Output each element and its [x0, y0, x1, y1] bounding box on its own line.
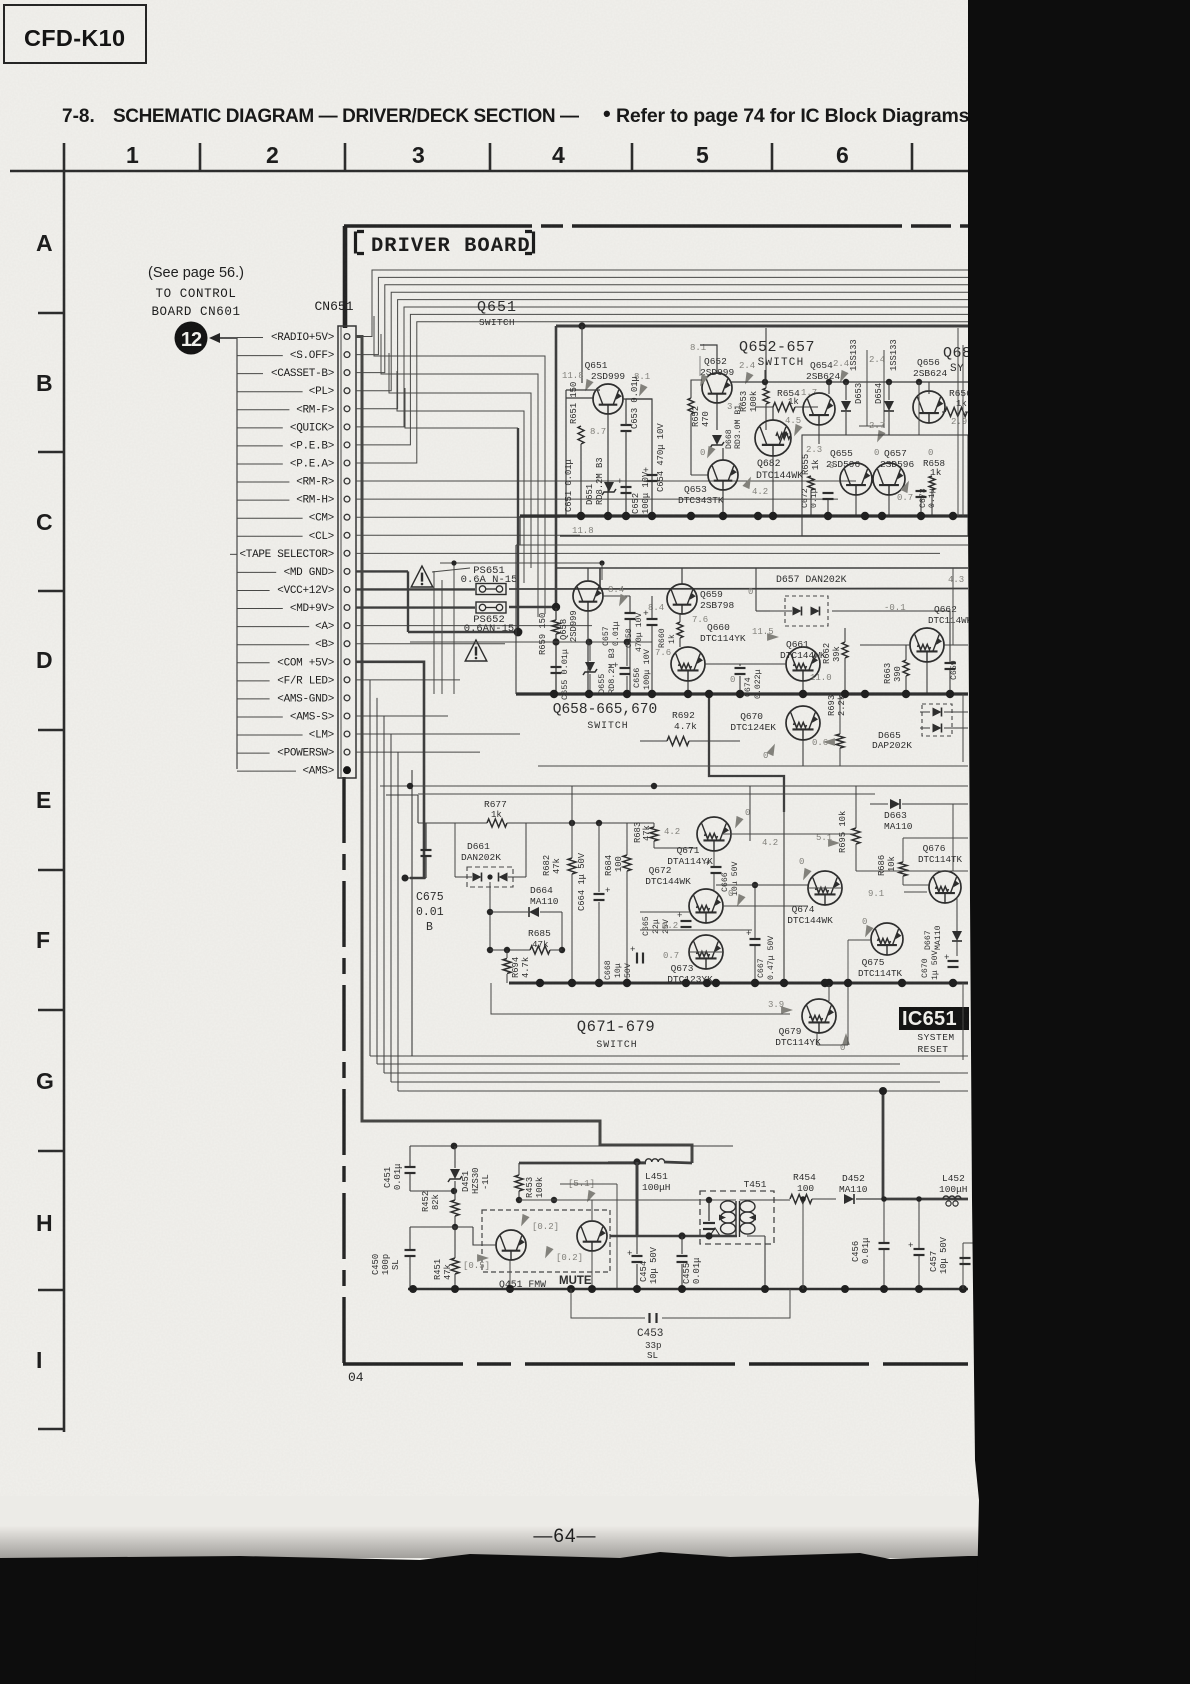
connector CN651 pin MD GND: [344, 569, 350, 575]
bus junction row H: [915, 1285, 923, 1293]
connector CN651 pin P.E.B: [344, 442, 350, 448]
bus junction row H: [841, 1285, 849, 1293]
bus junction row F: [821, 979, 829, 987]
switch box Q655 Q657: [802, 435, 968, 536]
connector CN651 pin B: [344, 641, 350, 647]
fuse PS651: [476, 584, 506, 595]
wire right vertical row H: [962, 1243, 964, 1289]
transistor Q679: [802, 999, 836, 1033]
driver board caption: [356, 232, 365, 254]
connector CN651 pin RADIO+5V: [344, 334, 350, 340]
bus junction row H: [506, 1285, 514, 1293]
capacitor C655 0.01u: [551, 666, 562, 668]
wire MD+9V feed: [356, 606, 475, 608]
connector CN651 pin CL: [344, 532, 350, 538]
ruler left tick 9: [38, 1428, 64, 1431]
rail below bus 2: [516, 544, 968, 546]
wire Q660 to Q661: [705, 663, 786, 665]
transistor Q657: [873, 463, 905, 495]
wire right edge verticals: [957, 328, 959, 516]
bus junction row H: [588, 1285, 596, 1293]
bus junction row D: [623, 690, 631, 698]
bus junction row F: [536, 979, 544, 987]
ruler top tick 2: [344, 143, 347, 171]
ruler top line: [10, 170, 968, 173]
transistor Q676: [929, 871, 961, 903]
ruler left tick 7: [38, 1150, 64, 1153]
bus junction: [861, 512, 869, 520]
bus junction row H: [959, 1285, 967, 1293]
bus junction row F: [595, 979, 603, 987]
wire Q651 base network: [566, 397, 593, 399]
bus junction row D: [736, 690, 744, 698]
connector reference circle 12: [175, 322, 208, 355]
connector CN651 pin P.E.A: [344, 460, 350, 466]
driver board border left lower dash-dot: [342, 777, 345, 1366]
warning triangle lower: [465, 640, 487, 661]
bus junction row F: [703, 979, 711, 987]
bus junction row D: [705, 690, 713, 698]
fuse PS652: [476, 602, 506, 613]
inductor L451 100uH: [645, 1159, 664, 1162]
bus junction row H: [761, 1285, 769, 1293]
connector CN651 pin MD+9V: [344, 605, 350, 611]
bus junction: [824, 512, 832, 520]
bus junction row H: [678, 1285, 686, 1293]
bus junction row D: [550, 690, 558, 698]
connector CN651 pin A: [344, 623, 350, 629]
capacitor C675 0.01 B: [421, 849, 432, 851]
ruler left tick 4: [38, 729, 64, 732]
svg-text:—64—: —64—: [533, 1526, 596, 1547]
switch block outline: [491, 983, 790, 1014]
wire bus drop x709: [709, 694, 784, 812]
wire from PS652 right: [509, 606, 556, 608]
bus junction: [687, 512, 695, 520]
ruler top tick 4: [631, 143, 634, 171]
connector CN651 pin COM +5V: [344, 659, 350, 665]
transistor Q670: [786, 706, 820, 740]
wire lower rail row D: [538, 765, 968, 767]
transistor Q451a: [496, 1230, 526, 1260]
bus junction row D: [902, 690, 910, 698]
rail to Q658 block: [556, 567, 968, 569]
bus junction row F: [682, 979, 690, 987]
connector CN651 pin LM: [344, 731, 350, 737]
bus junction row H: [567, 1285, 575, 1293]
mute block Q451: [482, 1210, 610, 1272]
wire bundle bottom horizontals to right: [370, 1055, 968, 1057]
bus junction: [622, 512, 630, 520]
transistor Q659: [667, 584, 697, 614]
bus junction row D: [684, 690, 692, 698]
driver board border left upper: [343, 226, 348, 328]
capacitor at page edge cut: [960, 1257, 971, 1259]
connector CN651 pin S.OFF: [344, 352, 350, 358]
ruler left tick 6: [38, 1009, 64, 1012]
bus junction row D: [861, 690, 869, 698]
bus row F: [509, 982, 968, 985]
ruler top tick 5: [771, 143, 774, 171]
ruler left tick 5: [38, 869, 64, 872]
ruler left vertical line: [63, 171, 66, 1432]
wire T451 secondary top to R454: [740, 1199, 791, 1201]
IC651 block: [899, 1007, 969, 1030]
connector CN651 pin AMS-GND: [344, 695, 350, 701]
driver board border top: [344, 224, 968, 228]
wire VCC+12V feed: [356, 588, 475, 590]
rail below bus: [560, 535, 968, 537]
wire Q679 collector: [828, 985, 830, 1001]
connector CN651 pin AMS-S: [344, 713, 350, 719]
bus junction row F: [949, 979, 957, 987]
bus junction: [719, 512, 727, 520]
transistor Q652: [702, 373, 732, 403]
transistor Q662: [910, 628, 944, 662]
thick feed wire RADIO+5V rail down to FMW mute section: [356, 337, 692, 1164]
bus junction row F: [780, 979, 788, 987]
bus junction row D: [648, 690, 656, 698]
connector CN651 pin PL: [344, 388, 350, 394]
wire Q652 emitter to Q653: [716, 403, 718, 430]
ruler top tick 1: [199, 143, 202, 171]
bus junction row F: [844, 979, 852, 987]
connector CN651 pin CM: [344, 514, 350, 520]
connector CN651 body: [338, 326, 356, 778]
transistor Q673: [689, 935, 723, 969]
thick vertical rail from top to MD+9V net: [555, 326, 558, 608]
top rail of switch blocks: [556, 325, 968, 328]
bus row D: [516, 692, 968, 695]
bus junction row F: [623, 979, 631, 987]
wire top rail Q654 Q656: [730, 381, 968, 383]
wire Q658: [587, 611, 589, 694]
inductor L452 100uH: [943, 1196, 961, 1199]
transistor Q656: [913, 391, 945, 423]
bus row H: [408, 1288, 968, 1291]
bus junction row F: [751, 979, 759, 987]
bus junction row D: [946, 690, 954, 698]
wire vertical drop bundle left of board: [369, 680, 371, 1056]
zener diode D655 RD8.2M B3: [585, 662, 595, 672]
transistor Q651: [593, 384, 623, 414]
ruler top tick 3: [489, 143, 492, 171]
bus junction: [648, 512, 656, 520]
wire staircase from nest to switch blocks: [374, 316, 545, 614]
rail top of mute section: [410, 1145, 733, 1147]
transistor Q682: [772, 407, 774, 420]
transistor Q674: [808, 871, 842, 905]
ruler left tick 1: [38, 312, 64, 315]
thick drop to output filter: [882, 1091, 885, 1199]
ruler left tick 8: [38, 1289, 64, 1292]
thick wire after D452: [856, 1198, 883, 1200]
connector CN651 pin CASSET-B: [344, 370, 350, 376]
bus junction row H: [451, 1285, 459, 1293]
ruler left tick 2: [38, 451, 64, 454]
wire verticals from bundle into switch 2: [866, 350, 868, 426]
wire Q662 row: [860, 644, 910, 646]
wire AMS drop to bus: [411, 770, 413, 1056]
connector CN651 pin QUICK: [344, 424, 350, 430]
capacitor C656 100u 10V: [620, 667, 631, 669]
bus junction row D: [799, 690, 807, 698]
right black band: [968, 0, 1190, 1684]
wire MD GND thick loop: [356, 570, 408, 572]
wires Q671 block rails: [713, 851, 715, 866]
bottom scan shadow: [0, 1496, 1190, 1532]
connector CN651 pin TAPE SELECTOR: [344, 550, 350, 556]
transistor Q451b: [577, 1221, 607, 1251]
wire L451 node down thick: [636, 1162, 639, 1237]
connector CN651 pin POWERSW: [344, 749, 350, 755]
transistor Q653: [722, 448, 724, 460]
wire vertical 784: [783, 810, 785, 983]
wire Q652 collector: [700, 345, 717, 373]
connector CN651 pin RM-H: [344, 496, 350, 502]
capacitor C453 33p SL: [571, 1289, 645, 1318]
bus junction row F: [825, 979, 833, 987]
transistor Q655: [840, 463, 872, 495]
bus junction: [577, 512, 585, 520]
model number box CFD-K10: [4, 5, 146, 63]
bus junction: [917, 512, 925, 520]
bus junction: [604, 512, 612, 520]
ruler left tick 3: [38, 590, 64, 593]
bus junction row D: [841, 690, 849, 698]
connector label rail: [236, 338, 238, 769]
wire from PS651 out: [509, 588, 968, 591]
wire COM+5V thick feed: [356, 662, 424, 878]
connector CN651 pin RM-R: [344, 478, 350, 484]
connector CN651 pin F/R LED: [344, 677, 350, 683]
transistor Q671: [697, 817, 731, 851]
ruler top tick 6: [911, 143, 914, 171]
wire bundle from CN651 top pins to right side: [356, 270, 968, 337]
ground bus row C: [520, 514, 968, 517]
wire verticals mid column: [433, 571, 435, 694]
transistor Q672: [689, 889, 723, 923]
bus junction row H: [409, 1285, 417, 1293]
transistor Q658: [573, 581, 603, 611]
connector CN651 pin VCC+12V: [344, 587, 350, 593]
wire mute internals: [616, 1184, 618, 1289]
wire Q670 emitter: [802, 740, 804, 766]
transistor Q661: [786, 647, 820, 681]
connector CN651 pin AMS: [343, 766, 351, 774]
transistor Q654: [803, 393, 835, 425]
transistor Q675: [871, 923, 903, 955]
bus junction row F: [898, 979, 906, 987]
ruler top tick at col 0: [63, 143, 66, 171]
wire feed to D657: [755, 568, 757, 611]
leader wire PS651: [440, 562, 602, 564]
bus junction row D: [585, 690, 593, 698]
rail stub: [581, 326, 583, 383]
rail mid mute: [410, 1226, 473, 1228]
wire D661 center down: [489, 882, 491, 950]
bus junction: [949, 512, 957, 520]
bus junction: [769, 512, 777, 520]
connector CN651 pin RM-F: [344, 406, 350, 412]
wires Q655 Q657 block: [810, 490, 812, 516]
bus junction row F: [712, 979, 720, 987]
bus junction: [754, 512, 762, 520]
bus junction: [878, 512, 886, 520]
bus junction row H: [633, 1285, 641, 1293]
warning triangle upper: [411, 566, 433, 587]
rail row E: [380, 785, 968, 787]
wires from CN651 mid pins heading right: [356, 480, 856, 482]
bottom black band: [0, 1552, 1190, 1684]
arrow into circle 12: [213, 337, 237, 339]
bus junction row H: [880, 1285, 888, 1293]
bus junction row F: [568, 979, 576, 987]
driver board border bottom: [343, 1362, 968, 1365]
bus junction row H: [799, 1285, 807, 1293]
wire T451 bottom: [610, 1235, 737, 1238]
transistor Q660: [671, 647, 705, 681]
